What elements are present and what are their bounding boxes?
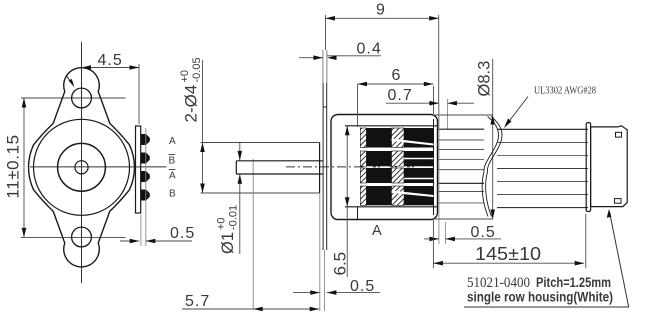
dimension 0.5 (wire exit) — [438, 104, 440, 244]
end cover line — [433, 119, 435, 215]
dimension 0.4 — [299, 57, 323, 59]
svg-text:11±0.15: 11±0.15 — [4, 134, 23, 198]
cavity bottom line — [345, 206, 437, 208]
dimension 145±10 — [433, 214, 585, 268]
short partition line below cavity — [357, 207, 359, 220]
dimension 0.7 — [386, 102, 439, 104]
top ear hole — [72, 88, 92, 108]
svg-text:4.5: 4.5 — [98, 52, 123, 69]
shaft circle — [75, 161, 88, 174]
svg-text:A: A — [169, 136, 176, 147]
svg-text:+0: +0 — [216, 217, 228, 230]
svg-text:0.5: 0.5 — [350, 278, 375, 295]
svg-text:145±10: 145±10 — [475, 244, 541, 264]
dimension 0.5 (plate gap, bottom) — [319, 193, 321, 311]
dimension 5.7 — [252, 159, 254, 309]
svg-text:2-Ø4: 2-Ø4 — [182, 85, 201, 123]
bottom ear hole centerline — [21, 236, 126, 238]
svg-text:0.4: 0.4 — [357, 41, 382, 58]
svg-text:Ø8.3: Ø8.3 — [476, 61, 494, 97]
white wire slivers across coils — [392, 139, 434, 146]
coil row 4 — [360, 186, 433, 205]
svg-text:A: A — [169, 171, 176, 182]
svg-text:+0: +0 — [179, 70, 191, 83]
wires left of break — [438, 129, 485, 203]
horizontal centerline of front view — [30, 166, 167, 168]
svg-text:-0.01: -0.01 — [228, 205, 240, 230]
pin B-bar — [141, 153, 150, 164]
svg-text:B: B — [169, 156, 176, 167]
cavity top line — [345, 125, 437, 127]
bottom ear hole — [72, 227, 92, 247]
cable break squiggle — [482, 117, 498, 217]
svg-text:UL3302 AWG#28: UL3302 AWG#28 — [534, 86, 596, 97]
motor can circle — [34, 119, 130, 215]
dimension 9 — [326, 15, 439, 127]
dimension 6 — [358, 84, 434, 127]
svg-text:-0.05: -0.05 — [191, 57, 203, 82]
pin B — [141, 190, 150, 201]
svg-text:Pitch=1.25mm: Pitch=1.25mm — [536, 275, 611, 290]
svg-text:9: 9 — [376, 2, 386, 19]
svg-text:6.5: 6.5 — [331, 252, 350, 276]
coil row 3 — [360, 168, 433, 183]
dimension 4.5 — [82, 64, 140, 124]
dimension 2-Ø4 +0/-0.05 — [201, 60, 320, 193]
center dash line — [286, 166, 421, 168]
vertical centerline of front view — [81, 42, 83, 283]
boss circle — [58, 143, 106, 191]
svg-text:B: B — [169, 189, 176, 200]
svg-text:single row housing(White): single row housing(White) — [467, 290, 613, 305]
coil row 2 — [360, 151, 433, 166]
dimension Ø8.3 — [433, 59, 493, 219]
white dashed centerline over coils — [364, 166, 421, 168]
svg-text:0.7: 0.7 — [388, 87, 413, 104]
mounting plate (side) — [323, 83, 327, 250]
svg-text:0.5: 0.5 — [471, 224, 496, 241]
dimension 11±0.15 — [23, 98, 25, 237]
small leader arrow on ear edge — [66, 75, 72, 83]
dimension Ø1 +0/-0.01 — [239, 143, 241, 254]
pin A-bar — [141, 171, 150, 182]
motor body shell — [331, 115, 438, 220]
motor plate outline (racetrack with ears) — [29, 68, 135, 267]
pin A — [141, 134, 150, 145]
svg-text:0.5: 0.5 — [170, 225, 195, 242]
svg-text:Ø1: Ø1 — [219, 232, 237, 254]
pin header bar — [136, 126, 141, 213]
coil row 1 — [360, 128, 433, 148]
svg-text:6: 6 — [392, 67, 402, 84]
connector note with leader — [464, 212, 629, 307]
dimension 6.5 — [346, 126, 348, 277]
end connector housing — [586, 123, 627, 212]
top ear hole centerline — [21, 97, 126, 99]
wires right of break — [497, 129, 588, 207]
svg-text:5.7: 5.7 — [185, 293, 210, 310]
shaft — [236, 161, 323, 174]
dimension 0.5 (front pins) — [141, 128, 146, 246]
plate extension lines up for 0.4 — [323, 50, 327, 83]
boss (2-Ø4) front face — [319, 143, 321, 194]
svg-text:A: A — [372, 223, 382, 239]
